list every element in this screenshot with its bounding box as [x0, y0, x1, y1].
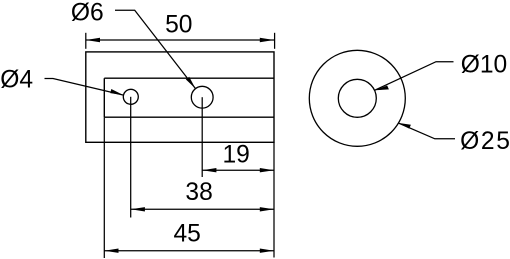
dim 38 arrow left	[131, 207, 145, 211]
side view inner circle D10	[338, 79, 376, 117]
svg-text:Ø6: Ø6	[71, 0, 104, 27]
leader D10 arrow	[375, 86, 389, 91]
leader D4 arrow	[110, 89, 123, 95]
svg-text:Ø25: Ø25	[460, 128, 510, 155]
dim 45 arrow right	[260, 249, 274, 253]
svg-text:50: 50	[165, 11, 192, 38]
hole D6 (large circle in plate)	[191, 86, 213, 108]
dim 38 line	[131, 208, 274, 210]
dim 50 extension line left	[85, 33, 87, 49]
dim 50 arrow right	[260, 38, 274, 42]
svg-text:Ø4: Ø4	[0, 67, 33, 94]
svg-text:19: 19	[223, 142, 250, 169]
leader D25 arrow	[398, 123, 411, 129]
dim 19 line	[202, 169, 274, 171]
inner step bottom edge	[104, 116, 274, 118]
outer rectangle of plate (front view)	[86, 52, 274, 142]
dim 19 arrow left	[202, 168, 216, 172]
dim 38 arrow right	[260, 207, 274, 211]
svg-text:Ø10: Ø10	[461, 52, 508, 79]
leader D6	[115, 10, 196, 88]
inner step left edge	[103, 78, 105, 117]
leader D6 arrow	[186, 77, 196, 89]
svg-text:38: 38	[185, 179, 212, 206]
dim 50 arrow left	[86, 38, 100, 42]
dim 45 extension line left (step edge extended)	[103, 117, 105, 258]
dim 38 extension line left (from hole D4 center)	[130, 97, 132, 218]
dim 45 line	[104, 250, 274, 252]
inner step top edge	[104, 77, 274, 79]
side view outer circle D25	[309, 50, 405, 146]
svg-text:45: 45	[174, 221, 201, 248]
leader D4	[45, 79, 124, 96]
hole D4 (small circle in plate)	[123, 89, 138, 104]
dim 19 extension line left (from hole D6 center)	[201, 97, 203, 177]
leader D10	[375, 62, 454, 91]
leader D25	[398, 123, 455, 139]
dim 50 line	[86, 39, 274, 41]
dim 19 arrow right	[260, 168, 274, 172]
dim 50 extension line right	[274, 33, 276, 49]
dim right extension line (below rect, shared by 19/38/45)	[273, 142, 275, 257]
dim 45 arrow left	[104, 249, 118, 253]
